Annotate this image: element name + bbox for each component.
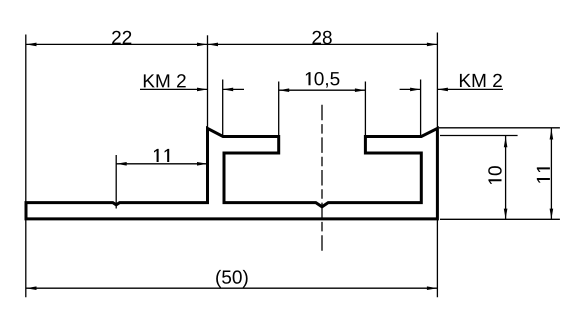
extension line slot right (x=365.4): [364, 82, 366, 136]
extension line bottom height (y=219.1): [440, 218, 560, 220]
dimension 28 line: [208, 43, 438, 47]
extension line KM2 left inner (x=222.7): [222, 80, 224, 136]
extension line right (x=437.4): [436, 33, 438, 298]
dimension 11 vertical text: [537, 167, 550, 182]
dimension 22 line: [26, 43, 208, 47]
dimension 22 text: [112, 31, 131, 44]
profile outline: [26, 128, 437, 219]
extension line KM2 right inner (x=420.6): [420, 80, 422, 136]
KM 2 left leader: [140, 88, 244, 92]
extension line 11-dim notch (x=116.2): [115, 155, 117, 209]
KM 2 left text: [144, 74, 186, 87]
KM 2 right leader: [400, 88, 503, 92]
dimension 11 horizontal text: [154, 149, 169, 162]
extension line left (x=25.8): [25, 35, 27, 298]
dimension 11 vertical line: [550, 128, 554, 219]
dimension 10 vertical text: [488, 166, 501, 184]
dimension 10,5 text: [306, 72, 339, 88]
dimension (50) text: [216, 270, 247, 288]
extension line slot left (x=278.7): [278, 82, 280, 136]
extension line top height 11 (y=127.8): [439, 127, 560, 129]
dimension (50) line: [26, 286, 437, 290]
extension line 22/28 boundary (x=207.5): [207, 35, 209, 127]
KM 2 right text: [460, 74, 502, 87]
dimension 11 horizontal line: [116, 162, 207, 166]
dimension 10,5 line: [279, 88, 366, 92]
centerline: [321, 105, 323, 254]
dimension 10 vertical line: [504, 136, 508, 220]
extension line lip top height 10 (y=135.5): [440, 135, 518, 137]
dimension 28 text: [312, 31, 331, 44]
